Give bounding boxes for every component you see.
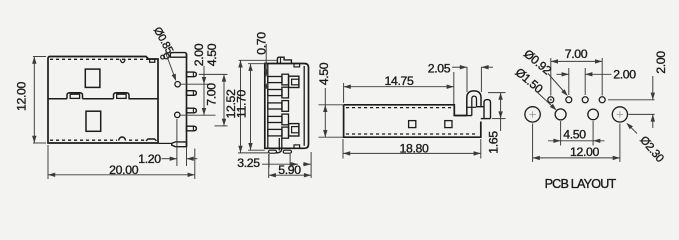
dim 2.05 extension lines [466,67,468,92]
view3 rear shelf [477,106,485,108]
dim 11.70 top tick [248,63,265,65]
view2 right inner line [303,66,305,146]
svg-text:2.00: 2.00 [654,51,668,74]
dim 2.05 line [452,66,467,68]
pcb dim 12.00 line [533,157,620,159]
view3 bottom dashed line [346,133,478,135]
view2 detent bump lower [289,124,299,136]
dim 14.75 line [344,86,454,88]
svg-text:5.90: 5.90 [278,163,301,177]
pcb dim 12.00 ext lines [532,124,534,163]
svg-text:12.00: 12.00 [15,81,29,111]
view2 contact finger 1 [268,77,282,83]
view2 top flange [277,57,291,63]
view1 mid seam line [48,98,67,100]
view3 rear curl (hump) inner [472,96,477,116]
dim 18.80 line [343,152,481,154]
view2 foot bar right [283,150,291,153]
view3 hump fold seam [467,106,476,108]
dim 11.70 bottom tick [248,149,265,151]
view1 tick hole2 [180,114,215,116]
view3 top dashed line [346,107,452,109]
dim 5.90 line [269,174,311,176]
pcb shield hole left (phi2.30) [525,107,540,122]
view1 top mounting tab [170,53,186,58]
pcb signal hole 1 (phi0.92) [548,97,554,103]
pcb post hole right (phi1.50) [588,109,599,120]
dim 12.52 top tick [239,59,278,61]
view2 bottom notch [294,145,300,148]
pcb dim 4.50 ext lines [560,121,562,146]
svg-text:PCB LAYOUT: PCB LAYOUT [545,177,617,191]
pcb signal hole 3 (phi0.92) [582,97,588,103]
label phi0.85 leader [166,53,176,79]
dim 20.00 extension lines [47,145,49,179]
pcb label phi0.92 leader [548,74,567,95]
view1 pin 3 [187,108,197,113]
pcb tick row2 [629,113,655,115]
pcb dim 2.00 arrows [557,73,569,75]
view1 shield hole lower (phi 0.85) [175,112,180,117]
dim 0.70 arrows [265,44,267,77]
view1 shell body outline [48,57,158,144]
view3 rear solder tab [484,100,491,119]
view1 top shell hole (upper square) [85,69,100,87]
view1 pin 4 [187,126,197,131]
dim 1.65 line [500,93,502,131]
svg-text:1.65: 1.65 [487,131,501,154]
view2 left wall inner line [267,64,269,149]
dim 12.52 bottom tick [238,152,269,154]
view1 tick 7.00 bottom [215,125,228,127]
dim 3.25 line [262,163,298,165]
pcb signal hole 4 (phi0.92) [599,97,605,103]
view1 top clip mark left [120,59,125,62]
svg-text:20.00: 20.00 [109,163,139,177]
dim 12.00 extension ticks [33,56,46,58]
dim 12.52 line [240,60,242,153]
view2 foot bar left [269,150,277,153]
pcb shield hole right (phi2.30) [612,107,627,122]
dim 3.25 extension lines [268,154,270,168]
pcb tick row1 [608,99,655,101]
view1 bottom shell hole (lower square) [86,111,101,131]
pcb dim 4.50 line [548,140,605,142]
view1 top clip mark right [150,59,155,62]
view3 small hole right [445,121,452,128]
dim 1.65 ticks [488,92,506,94]
pcb post hole left (phi1.50) [555,109,566,120]
dim 4.50 ticks (view3) [319,104,344,106]
view1 bottom dashed-line bump left [119,137,126,141]
view1 pin header bar [186,54,188,147]
view1 bottom dashed-line bump right [146,139,157,141]
dim 20.00 line [48,174,195,176]
view1 shield hole upper (phi 0.85) [175,82,180,87]
dim 12.00 line [33,57,35,144]
svg-text:1.20: 1.20 [138,152,161,166]
pcb signal hole 2 (phi0.92) [566,97,572,103]
view1 tick pin1 [199,73,228,75]
pcb dim 2.00 ext lines [568,68,570,95]
svg-text:2.00: 2.00 [613,68,636,82]
view2 shell outline [265,64,309,149]
dim 14.75 extension lines [343,83,345,103]
view2 contact finger 3 [268,103,282,109]
pcb dim 2.00 vertical line [652,76,654,100]
dim 4.50 line (view3) [324,88,326,137]
svg-text:18.80: 18.80 [399,142,429,156]
view1 pin 2 [187,91,197,96]
view1 bottom inner dashed line [50,139,117,141]
view1 tick hole1 [181,83,210,85]
dim 18.80 extension lines [342,139,344,159]
view2 solder foot tail [278,138,280,151]
pcb signal hole 1 center mark [550,99,552,101]
view1 crimp curl detail [161,55,165,59]
dim 1.20 extension line [176,119,178,166]
view3 rear curl (hump) outer [467,91,481,116]
dim 1.20 line and arrows [162,158,177,160]
svg-text:4.50: 4.50 [317,62,331,85]
svg-text:7.00: 7.00 [565,47,588,61]
view1 top inner dashed line [50,58,156,60]
svg-text:0.70: 0.70 [255,32,269,55]
pcb label phi2.30 leader [628,124,637,133]
view3 small hole left [409,121,416,128]
svg-text:14.75: 14.75 [384,74,414,88]
svg-text:4.50: 4.50 [563,128,586,142]
view1 latch bump left [67,93,83,99]
svg-text:12.00: 12.00 [570,145,600,159]
dim 5.90 extension line left [268,154,270,178]
view2 top notch [294,64,300,67]
svg-text:4.50: 4.50 [205,43,219,66]
view2 contact finger 5 [268,129,282,136]
pcb label phi1.50 leader [537,92,556,110]
dim 11.70 line [250,64,252,151]
dim 7.00 column line [223,74,225,126]
view2 detent bump upper [289,76,299,87]
view1 latch bump right [114,93,130,99]
dim 2.00/4.50 column line [203,66,205,115]
view1 pin 1 [187,72,197,77]
pcb dim 7.00 ext lines [550,58,552,96]
pcb dim 7.00 line [551,60,602,62]
view3 main body outline [344,105,481,137]
view2 contact finger 4 [268,116,282,122]
view3 rear lower bar [456,115,472,117]
svg-text:11.70: 11.70 [234,89,248,118]
svg-text:2.05: 2.05 [428,61,451,75]
svg-text:3.25: 3.25 [237,156,260,170]
svg-text:7.00: 7.00 [205,83,219,106]
view1 bottom solder foot [172,142,187,147]
view2 contact finger 2 [268,90,282,96]
